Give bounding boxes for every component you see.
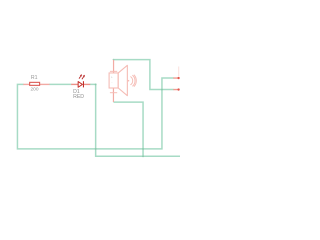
LED D1 right lead (cathode) (84, 83, 91, 85)
speaker bottom lead (112, 88, 114, 102)
upper-right pin stub (red) (173, 77, 178, 79)
sound wave arc 2 (132, 75, 135, 86)
resistor R1 body (30, 82, 40, 85)
svg-text:R1: R1 (31, 75, 38, 81)
LED D1 triangle (78, 82, 82, 88)
junction crossing net D over net A (142, 148, 144, 150)
sound wave dot (128, 80, 130, 82)
speaker driver box (109, 73, 118, 88)
svg-text:-: - (111, 80, 112, 84)
wire net A: R1 left terminal to upper-right pin (17, 78, 173, 149)
junction dot at LED corner (95, 83, 97, 85)
speaker cone (118, 65, 127, 95)
svg-text:RED: RED (73, 94, 84, 100)
svg-text:200: 200 (31, 87, 39, 93)
LED D1 cathode bar (82, 81, 84, 87)
wire net C: speaker plus pin to lower-right pin (114, 60, 174, 90)
resistor R1 left lead (23, 83, 29, 85)
sound wave arc 3 (134, 75, 136, 87)
lower-right pin dot (177, 88, 179, 90)
junction crossing net A over net C (161, 89, 163, 91)
junction crossing net B over net A (95, 148, 97, 150)
speaker top lead (113, 60, 115, 73)
speaker top pin bar (110, 70, 117, 72)
lower-right pin stub (red) (173, 89, 178, 91)
junction net D tee on net B (142, 155, 144, 157)
upper-right pin dot (177, 77, 179, 79)
wire net D: speaker minus pin down to bottom rail (113, 102, 143, 156)
wire net B: LED cathode down to bottom rail to right edge (90, 84, 180, 156)
wire R1 to LED anode (49, 83, 71, 85)
LED D1 left lead (anode) (71, 83, 78, 85)
LED light arrow 1 (79, 74, 82, 78)
LED light arrow 2 (82, 75, 85, 79)
faint off-screen part pin above upper dot (178, 67, 180, 77)
junction dot at speaker top corner (113, 59, 115, 61)
sound wave arc 1 (130, 77, 132, 85)
resistor R1 right lead (40, 83, 50, 85)
speaker bottom pin bar (110, 92, 117, 94)
